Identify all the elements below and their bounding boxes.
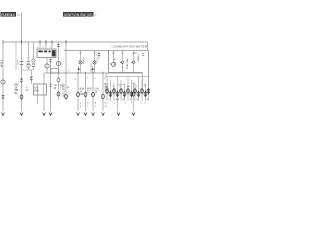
wire: x37.5 below box — [37, 95, 39, 104]
wire: second right bus y76.5 — [106, 77, 149, 88]
right connector band verticals — [107, 77, 149, 112]
svg-text:W-B: W-B — [87, 89, 92, 91]
component: small box on bus3 between x50.5 and x58.5 — [51, 69, 59, 73]
connector chevrons on x31.3 — [30, 77, 33, 81]
connector terminal x93 — [92, 92, 95, 96]
component: circle on left branch — [1, 80, 5, 84]
wire: x66 drop bus1 to bus2 to bus3 — [65, 42, 67, 73]
label box: FUSE BLOCK (top-left) — [1, 12, 21, 17]
component: sender circle x58.5 (upper) — [58, 42, 60, 78]
label: right band small text — [106, 85, 149, 105]
ground: x103 — [102, 113, 105, 116]
lamp: bulb 1 — [79, 52, 81, 54]
connector stub x99 — [98, 51, 100, 59]
connector terminal x85.5 — [84, 92, 87, 96]
wire: bus1 right drop into meter — [147, 42, 149, 51]
wire: x106 drop — [105, 73, 107, 77]
ground: left branch — [2, 113, 5, 116]
connector terminal x103 — [102, 94, 105, 98]
terminal on x66 lower — [65, 94, 68, 98]
component: lamp circle below relay — [46, 58, 48, 74]
svg-text:W-B 5: W-B 5 — [0, 59, 3, 67]
wire: third bus y73 — [44, 72, 143, 74]
wire: from fuse block down to bus1 — [21, 12, 23, 42]
connector terminals right band — [106, 88, 150, 97]
wire: main bus1 horizontal y42 — [3, 41, 148, 43]
component: relay box — [37, 49, 56, 58]
wire: second bus y50.5 (to meter top edge) — [64, 50, 149, 52]
gauge: circle 1 — [113, 51, 115, 63]
connector chevrons on left branch — [2, 95, 5, 99]
connector terminal x78 — [77, 92, 80, 96]
tick pair on x50.5 lower — [49, 85, 52, 87]
connector chevrons on x21 branch (upper) — [20, 79, 23, 83]
svg-text:YG: YG — [54, 85, 58, 87]
svg-text:IGNITION SW (IG): IGNITION SW (IG) — [64, 13, 93, 17]
lamp: bulb 2 — [93, 52, 95, 54]
meter internal mark right — [142, 54, 144, 56]
wire: join senders to x21 branch — [22, 67, 34, 70]
wire: x44 from bus3 down into lower box — [43, 73, 45, 84]
junction ticks on bus3 — [59, 72, 104, 74]
diode arrow below bulb1 — [78, 66, 80, 73]
label: relay internals — [38, 50, 55, 56]
svg-text:10: 10 — [17, 13, 21, 17]
ground: x50.5 — [49, 113, 52, 116]
ground: x93 — [92, 113, 95, 116]
component: fuse element on x21 branch — [20, 61, 23, 64]
ground: x118.5 — [117, 113, 120, 116]
svg-text:FUEL GAU: FUEL GAU — [126, 58, 129, 69]
svg-text:IND: IND — [34, 89, 38, 92]
svg-text:COMBINATION METER: COMBINATION METER — [112, 44, 148, 48]
diode arrow below bulb2 — [92, 66, 94, 73]
right band horizontal links — [118, 83, 136, 85]
wire: x50.5 branch from relay down — [50, 58, 52, 112]
ground: x85.5 — [84, 113, 87, 116]
wire: x93 lower branch — [90, 63, 92, 73]
wire: x85.5 lower branch — [85, 73, 87, 111]
svg-text:G: G — [67, 87, 69, 89]
svg-text:WB: WB — [116, 99, 120, 101]
wire: stubs bus1 to relay box — [40, 44, 52, 49]
junction ticks on bus1 — [3, 40, 66, 44]
gauge: circle 3 — [133, 51, 135, 73]
connector terminal on x21 branch (lower) — [20, 95, 23, 99]
component: sender element at x33.5 — [33, 42, 35, 59]
ground: x44 — [43, 113, 46, 116]
svg-text:TEMP G: TEMP G — [138, 53, 140, 62]
tick marks on x50.5 — [49, 60, 52, 62]
ground: x133.5 — [132, 113, 135, 116]
wire: left branch x3 down — [2, 42, 4, 111]
component: sender element at x28.5 — [28, 42, 30, 61]
svg-text:FUSE BLK: FUSE BLK — [2, 13, 16, 17]
svg-text:WB: WB — [15, 90, 19, 92]
component: lower-left box — [34, 84, 47, 95]
wire: x44 below box to ground — [43, 95, 45, 111]
ground: x78 — [77, 113, 80, 116]
ground: x21 branch — [20, 113, 23, 116]
connector terminal x58.5 — [57, 92, 60, 96]
lower box internals — [38, 84, 44, 95]
svg-text:VOLT M: VOLT M — [115, 58, 117, 66]
wire: x21 branch down — [21, 42, 23, 111]
wire: x78 lower branch — [77, 73, 79, 111]
wire: x103 lower branch — [102, 73, 104, 111]
wire: drop from sender join to lower box — [30, 70, 32, 84]
label box: IGNITION SWITCH (top-center) — [63, 12, 97, 17]
combination meter box left edge and bottom — [109, 51, 149, 77]
wire: x66 lower band stub — [65, 73, 67, 100]
gauge: circle 2 — [121, 51, 123, 73]
wire: faint branch x16 — [15, 42, 17, 70]
wire: bus3 right turn down at x142.5 — [142, 73, 144, 87]
svg-text:W: W — [144, 85, 146, 87]
